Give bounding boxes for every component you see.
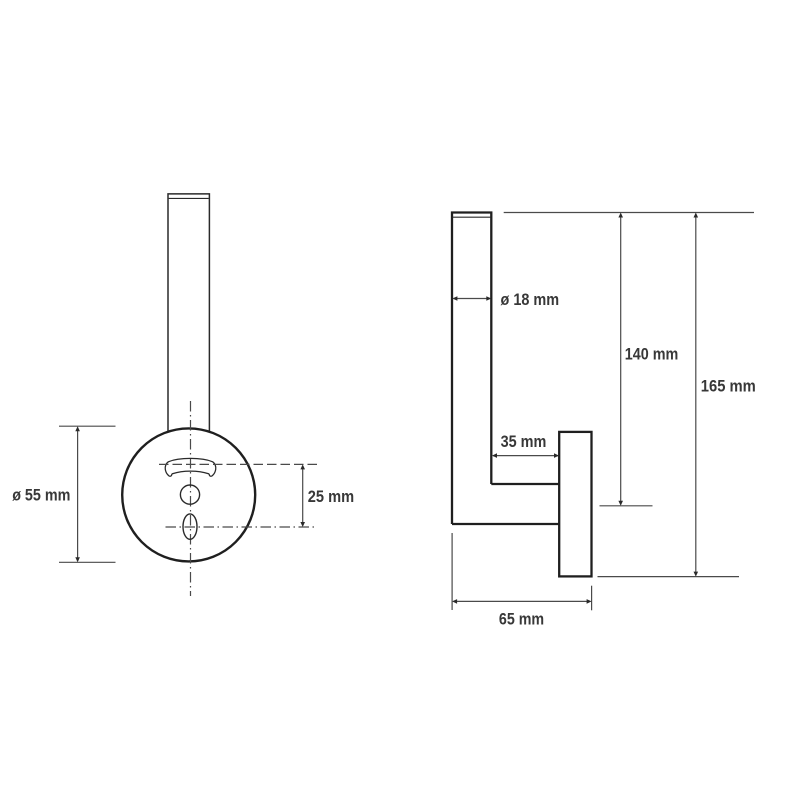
arrow up 165 <box>694 213 699 218</box>
svg-text:140 mm: 140 mm <box>625 346 679 364</box>
65mm dimension line <box>454 600 591 602</box>
tube cap line side <box>453 216 492 218</box>
dia55 top tick <box>59 425 116 427</box>
svg-text:65 mm: 65 mm <box>499 610 544 628</box>
vertical center line <box>190 401 192 596</box>
bottom extension line <box>598 576 740 578</box>
arrow right dia18 <box>486 296 491 301</box>
arm lower line <box>452 523 559 525</box>
tube front outline <box>168 194 209 432</box>
arrow up dia55 <box>75 426 80 431</box>
svg-text:ø 55 mm: ø 55 mm <box>12 486 70 504</box>
arrow down 165 <box>694 572 699 577</box>
arrow up 140 <box>618 213 623 218</box>
spring clip (smile) <box>165 458 216 476</box>
svg-text:35 mm: 35 mm <box>501 433 547 451</box>
arrow down 140 <box>618 501 623 506</box>
arrow down 25mm <box>300 522 305 527</box>
arrow up 25mm <box>300 464 305 469</box>
wall plate side rect <box>559 432 591 577</box>
arrow left dia18 <box>452 296 457 301</box>
arrow right 35 <box>554 453 559 458</box>
svg-text:ø 18 mm: ø 18 mm <box>501 291 560 309</box>
screw slot ellipse <box>183 514 197 539</box>
25mm dimension line <box>302 466 304 526</box>
65mm right extension line <box>591 586 593 611</box>
35mm dimension line <box>493 455 558 457</box>
dash-dot reference line lower (25mm bottom) <box>166 526 318 528</box>
arrow left 35 <box>492 453 497 458</box>
wall plate circle <box>122 428 255 561</box>
screw hole circle <box>180 485 199 504</box>
svg-text:25 mm: 25 mm <box>308 488 354 506</box>
140mm dimension line <box>620 214 622 504</box>
arrow right 65 <box>587 599 592 604</box>
65mm left extension line <box>451 533 453 610</box>
dashed reference line upper (25mm top) <box>159 463 317 465</box>
dia55 dimension line <box>77 428 79 562</box>
svg-text:165 mm: 165 mm <box>701 378 756 396</box>
tube cap line <box>169 197 209 199</box>
140mm bottom tick <box>600 505 653 507</box>
165mm dimension line <box>695 214 697 575</box>
dia18 dimension line <box>454 298 491 300</box>
arrow left 65 <box>452 599 457 604</box>
arm upper line <box>491 483 559 485</box>
tube side outline <box>452 213 491 525</box>
dia55 bottom tick <box>59 561 116 563</box>
top extension line <box>504 212 754 214</box>
arrow down dia55 <box>75 557 80 562</box>
